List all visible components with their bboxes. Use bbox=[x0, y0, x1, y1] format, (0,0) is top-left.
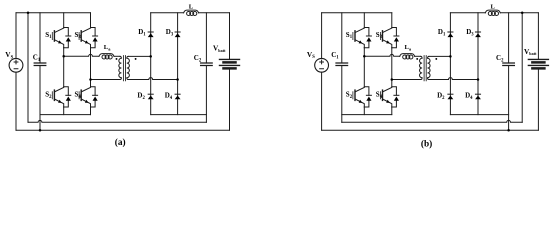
wire: bridge leg 1 collector lead (a) bbox=[63, 13, 65, 28]
wire: C1 top lead (b) bbox=[341, 13, 343, 63]
wire: middle rail riser to output rail (b) bbox=[521, 13, 523, 123]
svg-text:L: L bbox=[490, 4, 495, 11]
capacitor C2 (a) bbox=[201, 63, 213, 66]
capacitor C1 (a) bbox=[34, 63, 46, 66]
wire: output rail right of L (b) bbox=[500, 12, 538, 14]
junction: secondary bottom on rectifier leg 2 (a) bbox=[176, 78, 179, 81]
transistor S4 (a) bbox=[79, 87, 98, 107]
wire: Vs negative lead (b) bbox=[321, 72, 323, 130]
wire: La to transformer primary (b) bbox=[415, 55, 421, 57]
transformer (b) bbox=[416, 56, 437, 81]
transformer (a) bbox=[116, 56, 137, 81]
wire: node A to La with hop over leg 2 (a) bbox=[64, 54, 99, 56]
wire: rectifier bottom rail (a) bbox=[151, 114, 207, 116]
wire: rectifier leg D1-D2 (a) bbox=[150, 13, 152, 115]
svg-text:(b): (b) bbox=[421, 138, 432, 149]
diode D1 (a) bbox=[148, 32, 154, 37]
wire: battery negative lead (b) bbox=[537, 68, 539, 130]
wire: transformer primary bottom return (b) bbox=[392, 79, 421, 81]
wire: bridge leg 1 midsection (a) bbox=[63, 48, 65, 87]
wire: La to transformer primary (a) bbox=[114, 55, 120, 57]
wire: node A to La with hop over leg 2 (b) bbox=[364, 54, 399, 56]
wire: rectifier leg D3-D4 (b) bbox=[477, 13, 479, 115]
wire: bridge leg 2 emitter lead (a) bbox=[90, 107, 92, 115]
diode D1 (b) bbox=[448, 32, 454, 37]
svg-text:(a): (a) bbox=[115, 137, 126, 148]
wire: middle return rail with hop over C2 lead (b) bbox=[342, 120, 522, 122]
diode D4 (b) bbox=[475, 94, 481, 99]
junction: primary return on leg 2 (b) bbox=[391, 78, 394, 81]
junction: secondary top on rectifier leg 1 (b) bbox=[449, 55, 452, 58]
wire: bridge bottom rail (a) bbox=[40, 114, 91, 116]
wire: battery positive lead (a) bbox=[229, 13, 231, 60]
junction: top rail tap (a) bbox=[27, 12, 30, 15]
wire: bridge leg 1 midsection (b) bbox=[363, 48, 365, 87]
wire: rectifier bottom rail (b) bbox=[450, 114, 508, 116]
wire: C2 bottom lead to middle rail (a) bbox=[205, 66, 207, 123]
wire: top rail tap down to middle rail (a) bbox=[27, 13, 29, 123]
wire: bridge leg 2 midsection (b) bbox=[391, 48, 393, 87]
wire: bridge top rail (a) bbox=[16, 12, 91, 14]
transistor S2 (b) bbox=[353, 87, 372, 107]
diode D3 (b) bbox=[475, 32, 481, 37]
wire: battery positive lead (b) bbox=[537, 13, 539, 60]
junction: C1 lead on outer rail (a) bbox=[39, 129, 42, 132]
wire: rectifier top rail left of L (b) bbox=[450, 12, 485, 14]
wire: bridge leg 2 collector lead (b) bbox=[391, 13, 393, 28]
junction: riser on output rail (b) bbox=[521, 12, 524, 15]
wire: rectifier leg D3-D4 (a) bbox=[177, 13, 179, 115]
wire: transformer primary bottom return (a) bbox=[91, 79, 121, 81]
wire: middle return rail with hop over C1 lead (a) bbox=[28, 120, 206, 122]
wire: rectifier leg D1-D2 (b) bbox=[449, 13, 451, 115]
transistor S4 (b) bbox=[380, 87, 399, 107]
wire: rectifier top rail left of L (a) bbox=[151, 12, 184, 14]
transistor S2 (a) bbox=[52, 87, 71, 107]
inductor L (a) bbox=[184, 10, 199, 15]
wire: bridge leg 1 emitter lead (b) bbox=[363, 107, 365, 115]
voltage source Vs (a) bbox=[9, 58, 23, 72]
junction: secondary bottom on rectifier leg 2 (b) bbox=[477, 78, 480, 81]
wire: transformer secondary bottom with hop (b) bbox=[429, 78, 478, 80]
wire: bridge leg 2 collector lead (a) bbox=[90, 13, 92, 28]
diode D4 (a) bbox=[175, 94, 181, 99]
diode D2 (a) bbox=[148, 94, 154, 99]
voltage source Vs (b) bbox=[315, 58, 329, 72]
inductor La (a) bbox=[99, 54, 114, 59]
wire: battery negative lead (a) bbox=[229, 68, 231, 130]
capacitor C2 (b) bbox=[503, 63, 515, 66]
transistor S1 (b) bbox=[353, 28, 372, 48]
junction: secondary top on rectifier leg 1 (a) bbox=[149, 55, 152, 58]
wire: transformer secondary bottom with hop (a) bbox=[128, 78, 177, 80]
wire: C1 bottom lead to outer rail (a) bbox=[39, 66, 41, 131]
wire: transformer secondary top (b) bbox=[429, 55, 451, 57]
transistor S3 (a) bbox=[79, 28, 98, 48]
wire: C1 bottom lead to middle rail (b) bbox=[341, 66, 343, 123]
wire: bridge leg 2 emitter lead (b) bbox=[391, 107, 393, 115]
wire: outer bottom rail (a) bbox=[16, 129, 230, 131]
wire: Vs positive lead (b) bbox=[321, 13, 323, 59]
wire: outer bottom rail (b) bbox=[322, 129, 539, 131]
wire: bridge leg 2 midsection (a) bbox=[90, 48, 92, 87]
battery Vbatt (b) bbox=[528, 59, 548, 68]
diode D2 (b) bbox=[448, 94, 454, 99]
wire: C1 top lead (a) bbox=[39, 13, 41, 63]
wire: C2 top lead (b) bbox=[508, 13, 510, 63]
inductor L (b) bbox=[485, 10, 500, 15]
capacitor C1 (b) bbox=[336, 63, 348, 66]
node A (b) bbox=[363, 55, 366, 58]
wire: bridge leg 1 collector lead (b) bbox=[363, 13, 365, 28]
svg-text:L: L bbox=[189, 4, 194, 11]
wire: bridge bottom rail (b) bbox=[342, 114, 392, 116]
transistor S1 (a) bbox=[52, 28, 71, 48]
wire: Vs negative lead (a) bbox=[15, 72, 17, 130]
wire: transformer secondary top (a) bbox=[128, 55, 151, 57]
junction: C2 lead on outer rail (b) bbox=[507, 129, 510, 132]
wire: Vs positive lead (a) bbox=[15, 13, 17, 59]
transistor S3 (b) bbox=[380, 28, 399, 48]
wire: output rail right of L (a) bbox=[199, 12, 230, 14]
inductor La (b) bbox=[400, 54, 415, 59]
junction: primary return on leg 2 (a) bbox=[89, 78, 92, 81]
battery Vbatt (a) bbox=[220, 59, 240, 68]
wire: C2 bottom lead to outer rail (b) bbox=[508, 66, 510, 131]
node A (a) bbox=[62, 55, 64, 58]
wire: bridge top rail (b) bbox=[322, 12, 392, 14]
diode D3 (a) bbox=[175, 32, 181, 37]
wire: C2 top lead (a) bbox=[205, 13, 207, 63]
wire: bridge leg 1 emitter lead (a) bbox=[63, 107, 65, 115]
